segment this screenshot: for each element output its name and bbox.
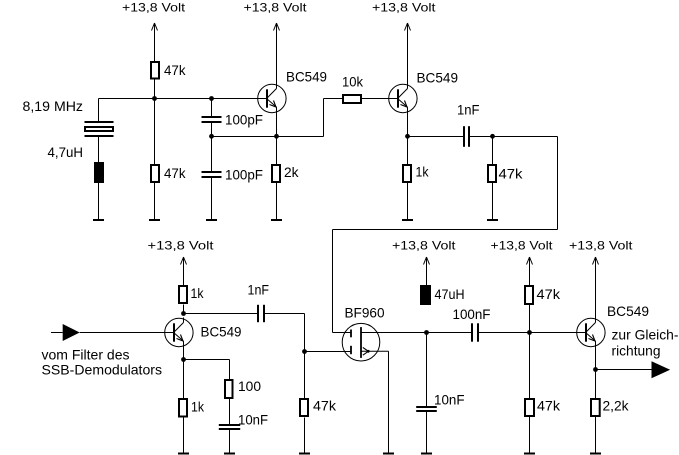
wire 1k to ground (407, 183, 409, 220)
wire source to ground (388, 351, 390, 452)
svg-text:100nF: 100nF (453, 306, 491, 322)
resistor 47k (base bias lower) (151, 165, 186, 182)
wire step to 10k (324, 98, 343, 100)
svg-text:100pF: 100pF (225, 167, 263, 183)
wire node D to 2k (276, 137, 278, 165)
ground (1k Q3) (178, 453, 189, 455)
wire node I to 47k (304, 352, 306, 399)
wire node L to output (596, 369, 652, 371)
wire Q3 collector to 1nF (184, 313, 259, 315)
ground (crystal branch) (93, 219, 104, 221)
svg-text:+13,8 Volt: +13,8 Volt (244, 1, 308, 15)
wire node C to Q1 emitter node (212, 136, 277, 138)
ground (BF960 source) (383, 453, 394, 455)
wire node J to 10nF (426, 333, 428, 407)
svg-text:10nF: 10nF (238, 412, 268, 428)
svg-text:BC549: BC549 (417, 70, 459, 86)
wire node B to 100pF upper (211, 99, 213, 118)
ground (2,2k) (590, 453, 601, 455)
resistor 47k (Q4 base bias lower) (525, 398, 561, 417)
wire 47k upper to node K (529, 305, 531, 333)
wire 2,2k to ground (595, 417, 597, 453)
wire input to Q3 base (80, 332, 174, 334)
input arrow (signal in) (63, 324, 80, 341)
wire down to node I (304, 314, 306, 352)
power +13,8V arrow 1 (152, 23, 158, 61)
capacitor 1nF (osc output coupling) (464, 126, 469, 147)
resistor 1k (Q3 emitter) (179, 399, 205, 417)
svg-text:richtung: richtung (612, 343, 661, 359)
wire node L to 2,2k (595, 370, 597, 399)
wire Q3 emitter to node H (183, 346, 185, 360)
wire 47k lower to ground (154, 183, 156, 220)
wire 100pF lower to ground (211, 177, 213, 220)
svg-text:4,7uH: 4,7uH (48, 144, 84, 160)
wire inductor to ground (98, 183, 100, 220)
svg-text:+13,8 Volt: +13,8 Volt (372, 1, 436, 15)
svg-text:+13,8 Volt: +13,8 Volt (491, 239, 554, 253)
capacitor 10nF (emitter bypass) (219, 425, 240, 429)
transistor Q4 BC549 (output) (577, 318, 605, 348)
wire 100 to 10nF (229, 399, 231, 425)
inductor 4,7uH (ferrite choke) (94, 162, 104, 183)
svg-text:2k: 2k (284, 164, 299, 180)
svg-text:+13,8 Volt: +13,8 Volt (122, 1, 186, 15)
node C junction (209, 134, 214, 139)
resistor 100 (emitter degeneration) (225, 378, 261, 398)
wire down to 100 (229, 360, 231, 380)
resistor 47k (base bias upper) (151, 62, 186, 79)
node J junction (drain) (424, 330, 429, 335)
svg-text:47k: 47k (537, 286, 562, 302)
node E junction (Q2 emitter) (405, 134, 410, 139)
power +13,8V arrow 5 (424, 257, 430, 285)
svg-text:47k: 47k (499, 166, 524, 182)
node A junction (152, 96, 157, 101)
ground (47k lower right) (524, 453, 535, 455)
inductor 47uH (drain choke) (420, 285, 431, 305)
wire osc output down to G2 (332, 230, 334, 333)
wire node rail (crystal to Q1 base) (99, 98, 267, 100)
svg-text:+13,8 Volt: +13,8 Volt (392, 239, 456, 253)
svg-text:1nF: 1nF (248, 282, 270, 298)
ground (47k osc output) (487, 219, 498, 221)
wire node J to 100nF (427, 332, 473, 334)
svg-text:10nF: 10nF (434, 392, 465, 408)
node B junction (209, 96, 214, 101)
svg-text:1k: 1k (416, 164, 430, 180)
svg-text:BC549: BC549 (201, 324, 242, 340)
ground (47k gate bias) (299, 453, 310, 455)
svg-text:2,2k: 2,2k (603, 398, 630, 414)
wire crystal to inductor (98, 136, 100, 162)
svg-text:BF960: BF960 (345, 305, 385, 321)
power +13,8V arrow 3 (405, 23, 411, 84)
output arrow (zur Gleichrichtung) (652, 361, 671, 378)
svg-text:8,19 MHz: 8,19 MHz (23, 98, 84, 114)
wire node E to 1k (407, 137, 409, 165)
power +13,8V arrow 6 (527, 257, 533, 285)
wire 1nF to node F (469, 136, 493, 138)
wire 47k to node A (154, 80, 156, 99)
capacitor 100pF (upper) (202, 117, 222, 122)
ground (47k lower) (149, 219, 160, 221)
svg-text:vom Filter des: vom Filter des (42, 347, 130, 363)
wire node F right (493, 136, 558, 138)
power +13,8V arrow 4 (181, 257, 187, 286)
resistor 1k (Q2 emitter load) (403, 164, 429, 183)
node D junction (Q1 emitter) (274, 134, 279, 139)
svg-text:+13,8 Volt: +13,8 Volt (569, 239, 633, 253)
svg-text:47uH: 47uH (435, 286, 465, 302)
capacitor 1nF (interstage coupling) (258, 305, 264, 322)
wire 2k to ground (276, 183, 278, 220)
wire osc output across (333, 229, 558, 231)
wire source lead (361, 350, 389, 352)
wire 10k to Q2 base (362, 98, 398, 100)
power +13,8V arrow 7 (593, 257, 599, 319)
node G junction (Q3 collector) (181, 311, 186, 316)
capacitor 10nF (drain decoupling) (416, 407, 437, 411)
power +13,8V arrow 2 (274, 23, 280, 85)
wire rail to crystal (98, 99, 100, 123)
node H junction (Q3 emitter) (181, 357, 186, 362)
svg-text:SSB-Demodulators: SSB-Demodulators (42, 361, 163, 377)
svg-text:100pF: 100pF (225, 112, 263, 128)
svg-text:BC549: BC549 (607, 303, 649, 319)
wire node E to 1nF (408, 136, 465, 138)
resistor 47k (osc output load) (488, 165, 524, 182)
ground (10nF right) (421, 453, 432, 455)
wire step vertical (323, 99, 325, 137)
wire input lead (51, 332, 63, 334)
svg-text:47k: 47k (537, 398, 561, 414)
svg-text:47k: 47k (313, 398, 337, 414)
svg-text:+13,8 Volt: +13,8 Volt (148, 239, 215, 253)
wire 100pF upper to node C (211, 122, 213, 171)
svg-text:zur Gleich-: zur Gleich- (612, 327, 679, 343)
resistor 2k (Q1 emitter load) (272, 164, 299, 182)
wire 1nF right (264, 313, 305, 315)
resistor 47k (gate 1 bias) (300, 398, 337, 417)
svg-text:47k: 47k (164, 62, 186, 78)
wire 47k to ground (304, 418, 306, 453)
wire node H to 1k lower (183, 360, 185, 399)
ground (10nF left) (224, 453, 235, 455)
transistor Q1 BC549 (oscillator) (258, 84, 286, 114)
ground (100pF lower) (206, 219, 217, 221)
transistor Q3 BC549 (amplifier) (165, 318, 193, 348)
wire Q1 emitter to node D (276, 112, 278, 137)
wire 10nF to ground (426, 411, 428, 453)
wire 47k to ground (492, 183, 494, 220)
wire 10nF to ground (229, 429, 231, 453)
svg-text:1k: 1k (191, 285, 205, 301)
ground (2k) (271, 219, 282, 221)
svg-text:1k: 1k (191, 399, 205, 415)
wire 1k to ground (183, 418, 185, 453)
wire node K to 47k lower (529, 333, 531, 399)
wire node F to 47k (492, 137, 494, 165)
svg-text:100: 100 (238, 378, 261, 394)
svg-text:47k: 47k (164, 165, 186, 181)
wire drain to node J (361, 332, 427, 334)
svg-text:BC549: BC549 (286, 69, 327, 85)
node F junction (490, 134, 495, 139)
transistor Q2 BC549 (buffer) (389, 84, 417, 114)
wire node K to Q4 base (530, 332, 586, 334)
wire osc output down (557, 137, 559, 230)
resistor 47k (Q4 base bias upper) (525, 286, 561, 304)
wire node H right (184, 359, 230, 361)
wire 1k to Q3 collector node (183, 305, 185, 314)
svg-text:10k: 10k (342, 74, 364, 90)
resistor 1k (Q3 collector) (179, 285, 204, 303)
resistor 10k (coupling) (342, 74, 364, 104)
wire Q4 emitter to node L (595, 346, 597, 370)
crystal X1 8,19MHz (85, 122, 114, 136)
wire gate 2 lead (333, 332, 351, 334)
svg-text:1nF: 1nF (457, 102, 480, 118)
wire Q2 emitter to node E (407, 112, 409, 137)
resistor 2,2k (Q4 emitter load) (591, 398, 629, 417)
node L junction (Q4 emitter) (593, 367, 598, 372)
wire node I to gate 1 (305, 351, 351, 353)
wire 100nF to node K (478, 332, 530, 334)
wire 47k lower to ground (529, 417, 531, 453)
wire node D step horizontal (277, 136, 324, 138)
node I junction (gate 1) (302, 349, 307, 354)
capacitor 100pF (lower) (202, 172, 222, 177)
capacitor 100nF (output coupling) (472, 323, 478, 341)
node K junction (Q4 base) (527, 330, 532, 335)
ground (1k Q2) (402, 219, 413, 221)
wire node A to 47k lower (154, 99, 156, 165)
transistor BF960 dual-gate MOSFET (342, 323, 380, 361)
